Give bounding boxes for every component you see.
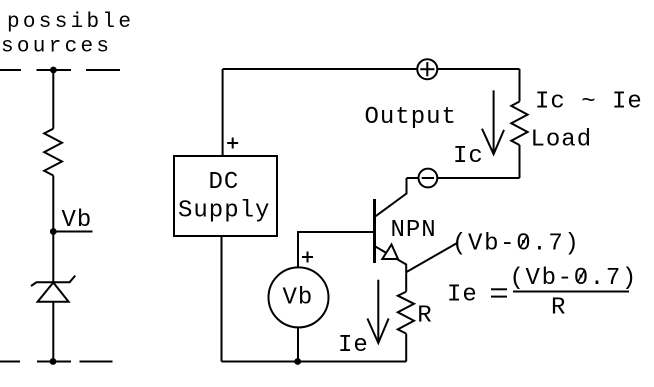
arrow Ie [367, 280, 388, 343]
zener diode cathode bar [31, 276, 75, 286]
resistor R [398, 292, 414, 334]
wire top horizontal right of + terminal [437, 68, 519, 70]
svg-text:possible: possible [7, 11, 134, 34]
svg-text:Vb: Vb [283, 285, 314, 312]
svg-text:(Vb-0.7): (Vb-0.7) [452, 231, 580, 258]
minus sign in terminal [422, 177, 434, 179]
node Vb stub wire [53, 231, 92, 233]
svg-text:sources: sources [1, 36, 112, 59]
wire node Vb to zener [52, 232, 54, 283]
slash of zero in label (Vb-0.7) [520, 236, 527, 248]
label + (Vb source polarity) [302, 252, 313, 263]
svg-text:(Vb-0.7): (Vb-0.7) [510, 265, 638, 292]
svg-text:NPN: NPN [391, 217, 437, 244]
terminal circle - [419, 169, 438, 188]
arrow Ic [482, 90, 504, 154]
wire - terminal to load [437, 177, 519, 179]
equation = [491, 289, 507, 296]
label + (DC supply polarity) [227, 138, 238, 149]
plus sign in terminal [420, 62, 434, 76]
zener diode triangle [38, 283, 69, 302]
label "possible sources" [1, 11, 134, 59]
transistor Q1 base bar [373, 199, 376, 263]
svg-text:R: R [417, 303, 432, 330]
terminal circle + [417, 59, 437, 79]
junction dot on top rail [50, 67, 57, 74]
top rail (dashed) [0, 69, 120, 71]
label DC Supply [178, 169, 270, 225]
source Vb circle [269, 267, 329, 327]
resistor (upper left source) [44, 129, 62, 176]
svg-text:Vb: Vb [62, 207, 93, 234]
junction dot bottom return [294, 358, 301, 365]
svg-text:Ic: Ic [453, 143, 484, 170]
svg-text:Load: Load [531, 127, 593, 154]
wire DC supply bottom vertical [221, 236, 223, 362]
leader line to (Vb-0.7) [407, 243, 459, 273]
transistor Q1 emitter lead [375, 246, 407, 292]
svg-text:Ic ~ Ie: Ic ~ Ie [535, 89, 643, 116]
transistor Q1 collector lead [375, 178, 407, 217]
wire Vb source bottom [297, 327, 299, 361]
wire top horizontal left of + terminal [223, 68, 418, 70]
svg-text:R: R [551, 295, 566, 322]
svg-text:Output: Output [365, 104, 457, 131]
wire resistor to node Vb [52, 176, 54, 232]
svg-text:Ie: Ie [447, 281, 478, 308]
svg-text:Ie: Ie [338, 332, 369, 359]
wire Vb source top to base wire corner [298, 232, 375, 267]
wire zener to bottom rail [52, 302, 54, 362]
wire top rail to resistor [52, 70, 54, 129]
DC Supply box [174, 156, 277, 236]
wire R to bottom return [405, 334, 407, 362]
svg-text:DC: DC [209, 169, 240, 196]
wire collector to - terminal [407, 177, 419, 179]
junction dot on bottom rail [50, 358, 57, 365]
wire bottom return [222, 361, 407, 363]
slash of zero in numerator [577, 271, 584, 283]
wire load bottom vertical [519, 145, 521, 178]
svg-text:Supply: Supply [178, 198, 270, 225]
wire DC supply top vertical [222, 69, 224, 156]
resistor Load [511, 102, 527, 146]
equation fraction bar [513, 291, 629, 293]
transistor Q1 emitter arrow triangle [382, 245, 398, 260]
node Vb junction dot [50, 228, 57, 235]
bottom rail (dashed) [0, 361, 113, 363]
wire top to load [519, 69, 521, 102]
